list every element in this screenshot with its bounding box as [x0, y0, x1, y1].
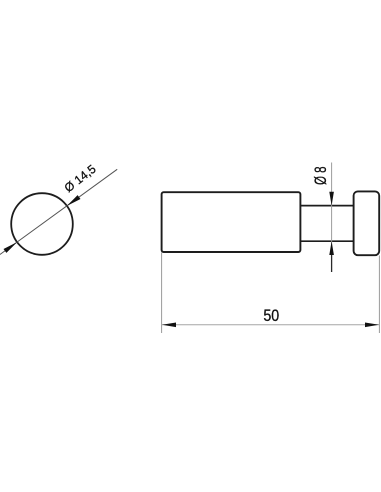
- arrowhead right of 50: [365, 323, 379, 328]
- svg-text:50: 50: [263, 307, 279, 325]
- side view: end cap flange: [354, 191, 380, 255]
- arrowhead lower-left of Ø14,5: [4, 242, 18, 253]
- arrowhead left of 50: [162, 323, 176, 328]
- side view: neck top edge: [300, 205, 353, 207]
- arrowhead upper-right of Ø14,5: [67, 195, 81, 206]
- side view: cylinder body: [162, 192, 301, 252]
- dimension line Ø8 (vertical through neck): [331, 163, 333, 255]
- extension line right of 50 dimension: [378, 256, 380, 334]
- extension line left of 50 dimension: [161, 253, 163, 334]
- label 50: [263, 307, 279, 325]
- arrowhead top of Ø8: [329, 192, 334, 206]
- label Ø 14,5: [62, 162, 99, 195]
- dimension line Ø14,5 (diagonal through circle): [0, 169, 117, 255]
- dimension line Ø8 dark tail below arrow: [331, 254, 333, 272]
- side view: neck bottom edge: [300, 240, 353, 242]
- front view circle (Ø14,5 hook face): [11, 193, 73, 255]
- svg-text:Ø 8: Ø 8: [312, 166, 331, 185]
- label Ø 8: [312, 166, 331, 185]
- dimension line 50 (horizontal): [162, 324, 380, 326]
- arrowhead bottom of Ø8: [329, 241, 334, 255]
